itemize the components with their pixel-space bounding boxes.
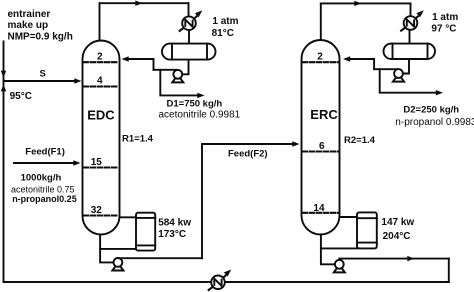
wire: ERC overhead top run <box>321 2 411 4</box>
wire: Feed F2 line <box>202 143 293 145</box>
condenser E3 (ERC) <box>400 10 424 31</box>
wire: EDC condenser drop <box>188 3 190 17</box>
wire: EDC reflux riser and reflux line <box>128 59 154 70</box>
wire: EDC bottoms outlet <box>100 233 114 262</box>
wire: EDC reboiler return <box>100 248 136 250</box>
arrow: EDC reflux into column <box>122 56 129 61</box>
svg-text:147 kw: 147 kw <box>381 217 414 228</box>
EDC stage 4 dashed tray <box>84 85 119 87</box>
svg-text:1 atm: 1 atm <box>212 16 238 27</box>
arrow: entrainer make-up down <box>1 71 6 78</box>
pump P4 bottoms pump (ERC) <box>334 260 345 273</box>
wire: bottom recycle line <box>4 281 449 283</box>
svg-text:4: 4 <box>97 76 103 87</box>
arrow: EDC overhead <box>135 1 142 6</box>
svg-text:acetonitrile 0.75: acetonitrile 0.75 <box>11 185 75 195</box>
arrow: S into EDC <box>74 78 81 83</box>
arrow: recycle up into junction <box>1 84 6 91</box>
pump P2 bottoms pump (EDC) <box>112 258 123 271</box>
wire: entrainer/recycle vertical line at left <box>3 42 5 283</box>
wire: EDC overhead top run <box>100 2 189 4</box>
wire: EDC overhead riser <box>99 3 101 41</box>
svg-text:D1=750 kg/h: D1=750 kg/h <box>167 99 223 110</box>
wire: ERC overhead riser <box>320 3 322 41</box>
wire: ERC bottoms outlet <box>321 233 335 264</box>
wire: EDC bottoms pump discharge <box>118 257 202 259</box>
svg-text:95°C: 95°C <box>10 91 32 102</box>
svg-text:1000kg/h: 1000kg/h <box>21 173 62 184</box>
wire: D2 distillate drop and run <box>380 69 436 93</box>
condenser E1 (EDC) <box>179 10 203 31</box>
EDC stage 15 dashed tray <box>84 166 119 168</box>
svg-text:15: 15 <box>91 157 103 168</box>
wire: ERC drum outlet to pump <box>403 59 409 74</box>
arrow: Feed F1 into EDC <box>73 160 80 165</box>
svg-text:acetonitrile 0.9981: acetonitrile 0.9981 <box>159 109 241 120</box>
reflux drum V1 (EDC) <box>162 44 216 60</box>
wire: D1 distillate drop and run <box>160 70 197 96</box>
reboiler E4 (ERC) <box>357 212 377 248</box>
svg-text:n-propanol 0.9983: n-propanol 0.9983 <box>395 117 474 128</box>
svg-text:97 °C: 97 °C <box>431 24 456 35</box>
arrow: ERC reflux into column <box>343 56 350 61</box>
svg-text:584 kw: 584 kw <box>158 217 191 228</box>
EDC stage 32 dashed tray <box>84 214 119 216</box>
svg-text:1 atm: 1 atm <box>432 12 458 23</box>
svg-text:n-propanol0.25: n-propanol0.25 <box>12 194 77 204</box>
ERC stage 2 dashed tray <box>303 61 339 63</box>
EDC stage 2 dashed tray <box>84 61 119 63</box>
svg-text:R1=1.4: R1=1.4 <box>122 134 154 145</box>
wire: ERC reboiler return <box>321 247 357 249</box>
pump P1 reflux pump (EDC) <box>172 70 183 83</box>
svg-text:make up: make up <box>8 20 49 31</box>
svg-text:R2=1.4: R2=1.4 <box>344 135 376 146</box>
wire: EDC condenser to drum <box>188 30 190 45</box>
wire: recycle right riser <box>448 259 450 282</box>
arrow: Feed F2 into ERC <box>292 141 299 146</box>
column EDC <box>83 41 120 235</box>
svg-text:204°C: 204°C <box>383 231 411 242</box>
svg-text:ERC: ERC <box>310 107 338 122</box>
arrow: D1 product <box>197 93 204 98</box>
svg-text:14: 14 <box>313 203 325 214</box>
cooler E5 on recycle line <box>208 270 232 291</box>
wire: S feed line into EDC <box>4 80 76 82</box>
reboiler E2 (EDC) <box>136 213 155 251</box>
svg-text:entrainer: entrainer <box>8 9 51 20</box>
svg-text:2: 2 <box>97 52 103 63</box>
wire: ERC reflux riser and reflux line <box>350 59 374 69</box>
svg-text:Feed(F1): Feed(F1) <box>25 146 65 157</box>
wire: EDC reflux pump discharge <box>154 69 177 71</box>
wire: F2 riser <box>201 144 203 258</box>
wire: Feed F1 line <box>14 162 73 164</box>
reflux drum V2 (ERC) <box>384 44 436 59</box>
svg-text:S: S <box>40 68 46 79</box>
arrow: ERC overhead <box>354 1 361 6</box>
svg-text:32: 32 <box>91 205 103 216</box>
wire: ERC reboiler feed <box>340 216 358 218</box>
svg-text:173°C: 173°C <box>158 229 186 240</box>
pump P3 reflux pump (ERC) <box>393 69 404 82</box>
svg-text:6: 6 <box>319 141 325 152</box>
wire: EDC reboiler feed <box>120 216 137 218</box>
wire: EDC drum outlet to pump <box>183 60 189 75</box>
svg-text:NMP=0.9 kg/h: NMP=0.9 kg/h <box>8 32 73 43</box>
wire: ERC reflux pump discharge <box>374 68 397 70</box>
arrow: recycle line rightward <box>407 256 414 261</box>
wire: ERC condenser to drum <box>409 30 411 45</box>
svg-text:EDC: EDC <box>87 108 115 123</box>
ERC stage 14 dashed tray <box>303 212 339 214</box>
svg-text:Feed(F2): Feed(F2) <box>228 149 268 160</box>
ERC stage 6 dashed tray <box>303 150 339 152</box>
wire: ERC bottoms pump discharge <box>339 258 449 260</box>
svg-text:2: 2 <box>317 52 323 63</box>
arrow: D2 product <box>436 90 443 95</box>
column ERC <box>302 40 340 235</box>
svg-text:81°C: 81°C <box>212 28 234 39</box>
svg-text:D2=250 kg/h: D2=250 kg/h <box>403 105 459 116</box>
wire: ERC condenser drop <box>410 3 412 17</box>
